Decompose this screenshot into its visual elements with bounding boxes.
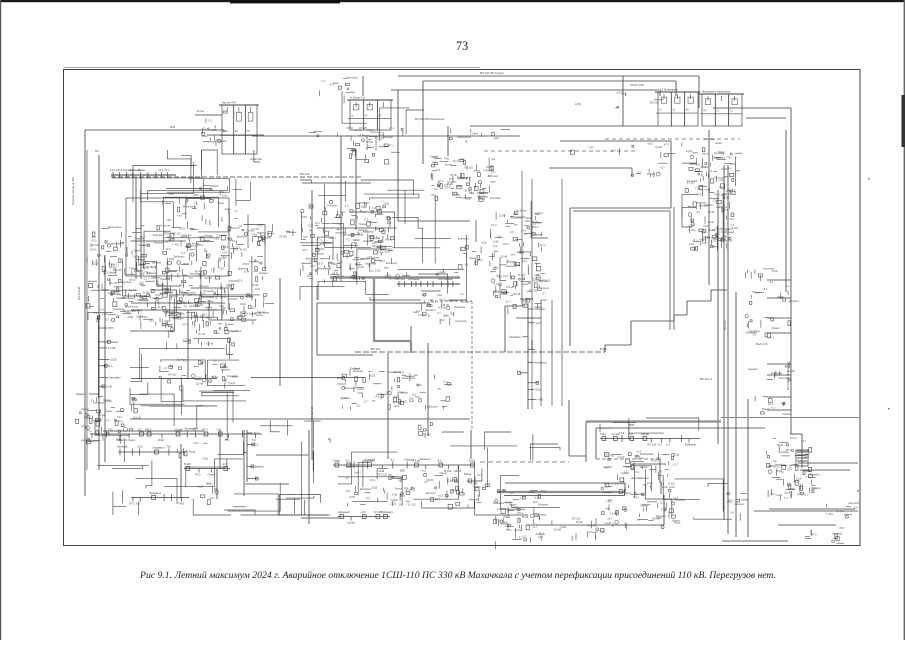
- svg-text:Каспийск: Каспийск: [509, 335, 521, 339]
- svg-text:РП-3: РП-3: [113, 264, 119, 268]
- svg-text:6,6: 6,6: [345, 476, 349, 480]
- taps east low: [755, 396, 792, 416]
- svg-text:ПС: ПС: [95, 149, 99, 153]
- svg-text:+j0,5: +j0,5: [142, 266, 148, 270]
- svg-text:АТ-1: АТ-1: [317, 238, 323, 242]
- svg-text:+4,8: +4,8: [340, 210, 346, 214]
- svg-text:Манас: Манас: [165, 290, 174, 294]
- svg-text:12,8: 12,8: [193, 427, 199, 431]
- svg-text:110 кВ: 110 кВ: [506, 285, 514, 289]
- scan edge top blob: [230, 0, 340, 3]
- wire tie 110kV: [111, 176, 363, 178]
- svg-text:2х25: 2х25: [421, 292, 427, 296]
- svg-text:Хасавюрт: Хасавюрт: [136, 314, 149, 318]
- wire: [595, 428, 597, 459]
- cluster bottom right: [766, 436, 821, 501]
- bus ladder 110kV: [110, 168, 176, 178]
- svg-text:ВЛ-330 кВ: ВЛ-330 кВ: [374, 136, 378, 150]
- wire: [569, 455, 586, 457]
- svg-text:Гуниб: Гуниб: [353, 367, 360, 371]
- svg-text:-8,3: -8,3: [628, 432, 633, 436]
- svg-text:Т-2: Т-2: [106, 418, 110, 422]
- wire: [605, 344, 631, 346]
- svg-text:АТ-2: АТ-2: [362, 257, 368, 261]
- svg-text:ТЭЦ: ТЭЦ: [360, 205, 365, 209]
- svg-text:АТ-1: АТ-1: [427, 304, 433, 308]
- svg-text:-8,3: -8,3: [225, 438, 230, 442]
- svg-text:-8,3: -8,3: [769, 280, 774, 284]
- svg-text:-15,2: -15,2: [659, 501, 665, 505]
- svg-text:Т-1: Т-1: [437, 311, 441, 315]
- svg-text:Т-401: Т-401: [483, 168, 490, 172]
- svg-text:Т-2: Т-2: [434, 187, 438, 191]
- svg-text:1СШ: 1СШ: [337, 260, 343, 264]
- svg-text:Леваши: Леваши: [259, 271, 269, 275]
- svg-text:ВЛ-110-4: ВЛ-110-4: [700, 377, 712, 381]
- svg-text:Леваши: Леваши: [76, 392, 86, 396]
- cluster Shamhal: [162, 303, 242, 350]
- wire box top edge: [317, 302, 430, 304]
- svg-text:2х25: 2х25: [133, 255, 139, 259]
- svg-text:Манас: Манас: [138, 168, 147, 172]
- feeder column center-right: [509, 306, 547, 409]
- svg-text:+j0,5: +j0,5: [393, 404, 399, 408]
- svg-text:ОРУ: ОРУ: [167, 218, 173, 222]
- svg-text:6,6: 6,6: [206, 482, 210, 486]
- svg-text:-5,1: -5,1: [658, 443, 663, 447]
- svg-text:2СШ: 2СШ: [222, 365, 228, 369]
- svg-text:2х25: 2х25: [190, 450, 196, 454]
- svg-text:2,4: 2,4: [188, 293, 192, 297]
- svg-text:1СШ: 1СШ: [93, 262, 99, 266]
- svg-text:АТ-2: АТ-2: [91, 239, 97, 243]
- small cluster: [418, 423, 432, 439]
- svg-text:РП-3: РП-3: [517, 511, 523, 515]
- svg-text:Изб-1: Изб-1: [625, 465, 632, 469]
- wire right bus: [708, 130, 710, 285]
- svg-text:Дербент: Дербент: [426, 308, 437, 312]
- svg-text:Леваши: Леваши: [635, 492, 645, 496]
- svg-text:10,4: 10,4: [222, 250, 228, 254]
- svg-text:13,1: 13,1: [235, 246, 241, 250]
- wire right bus: [727, 165, 729, 534]
- svg-text:Манас: Манас: [110, 340, 119, 344]
- svg-text:+4,8: +4,8: [84, 415, 90, 419]
- svg-text:ВЛ 330 кВ Чирюрт: ВЛ 330 кВ Чирюрт: [480, 71, 505, 75]
- wire: [216, 469, 218, 499]
- svg-text:РП-3: РП-3: [116, 168, 122, 172]
- svg-text:Гуниб: Гуниб: [129, 288, 136, 292]
- svg-text:2х25: 2х25: [390, 502, 396, 506]
- svg-text:Кизилюрт: Кизилюрт: [455, 319, 467, 323]
- svg-text:110 кВ: 110 кВ: [195, 303, 203, 307]
- svg-text:Т-2: Т-2: [346, 238, 350, 242]
- wire: [475, 220, 477, 242]
- components NW of Makhachkala: [319, 75, 358, 103]
- wire vertical left B: [98, 155, 100, 470]
- svg-text:ГЭС: ГЭС: [400, 468, 405, 472]
- svg-text:-21,7: -21,7: [143, 277, 149, 281]
- chain: [184, 462, 230, 477]
- svg-text:13,1: 13,1: [624, 469, 630, 473]
- bus heavy south: [586, 420, 721, 422]
- wire: [427, 343, 429, 436]
- drawing frame: [64, 70, 861, 546]
- svg-text:+4,8: +4,8: [374, 395, 380, 399]
- svg-text:2х25: 2х25: [198, 485, 204, 489]
- svg-text:ОРУ: ОРУ: [490, 180, 496, 184]
- svg-text:2,4: 2,4: [345, 204, 349, 208]
- svg-text:Т-2: Т-2: [532, 277, 536, 281]
- svg-text:3,2: 3,2: [753, 333, 757, 337]
- tap wire east vertical: [767, 409, 791, 411]
- svg-text:Леваши: Леваши: [134, 237, 144, 241]
- svg-text:В-110: В-110: [518, 273, 525, 277]
- svg-text:-8,3: -8,3: [216, 428, 221, 432]
- small cluster right: [826, 501, 860, 518]
- svg-text:-5,1: -5,1: [785, 284, 790, 288]
- wire: [180, 444, 182, 499]
- svg-text:Т-2: Т-2: [416, 309, 420, 313]
- svg-text:Ирганай: Ирганай: [538, 502, 549, 506]
- svg-text:Махачкала: Махачкала: [318, 267, 332, 271]
- svg-text:Ирганай: Ирганай: [527, 522, 538, 526]
- svg-text:Буйнакск: Буйнакск: [146, 271, 158, 275]
- svg-text:10,4: 10,4: [522, 259, 528, 263]
- svg-text:ПС-110: ПС-110: [572, 517, 581, 521]
- wire mesh bottom-center block: [338, 432, 560, 515]
- scan edge right: [904, 0, 905, 640]
- svg-text:Т-2: Т-2: [252, 438, 257, 442]
- svg-text:6,3 кВ: 6,3 кВ: [251, 227, 258, 231]
- svg-text:-8,3: -8,3: [437, 459, 442, 463]
- chain: [129, 491, 189, 506]
- wire: [687, 300, 711, 302]
- svg-text:13,6: 13,6: [377, 136, 383, 140]
- wire tie dashed: [355, 351, 605, 353]
- svg-text:2,4: 2,4: [494, 282, 498, 286]
- svg-text:Хасавюрт: Хасавюрт: [137, 298, 150, 302]
- wire: [560, 140, 671, 142]
- svg-text:Буйнакск: Буйнакск: [493, 501, 505, 505]
- svg-text:САОУ-330: САОУ-330: [630, 83, 644, 87]
- svg-text:6,6: 6,6: [283, 235, 287, 239]
- substation 330 NE bay 1: [655, 88, 700, 127]
- cluster bottom center-right: [493, 489, 549, 550]
- svg-text:Артем: Артем: [205, 276, 213, 280]
- svg-text:Хасавюрт: Хасавюрт: [749, 329, 762, 333]
- svg-text:Т-401: Т-401: [775, 493, 782, 497]
- svg-text:Гуниб: Гуниб: [357, 265, 364, 269]
- svg-text:2СШ: 2СШ: [708, 220, 714, 224]
- svg-text:2,4: 2,4: [666, 443, 670, 447]
- svg-text:ПС-110: ПС-110: [407, 502, 416, 506]
- taps east upper: [746, 267, 800, 305]
- svg-text:Леваши: Леваши: [536, 532, 546, 536]
- svg-text:-ВЛ-110: -ВЛ-110: [370, 347, 381, 351]
- svg-text:ГЭС: ГЭС: [211, 128, 216, 132]
- wire: [660, 483, 662, 494]
- svg-text:6,6: 6,6: [465, 262, 469, 266]
- svg-text:-5,1: -5,1: [470, 191, 475, 195]
- svg-text:+j0,5: +j0,5: [773, 464, 779, 468]
- svg-text:АТ-1: АТ-1: [107, 364, 113, 368]
- big left cluster: [86, 223, 274, 329]
- svg-text:В-110: В-110: [506, 500, 513, 504]
- svg-text:+j0,5: +j0,5: [647, 142, 653, 146]
- svg-text:110 кВ: 110 кВ: [183, 337, 191, 341]
- svg-text:+4,8: +4,8: [452, 192, 458, 196]
- wire: [711, 289, 727, 291]
- svg-text:ОРУ: ОРУ: [108, 326, 114, 330]
- svg-text:Артем: Артем: [640, 465, 648, 469]
- svg-text:+j0,5: +j0,5: [616, 90, 622, 94]
- svg-text:13,6: 13,6: [619, 431, 625, 435]
- svg-text:ПС-110: ПС-110: [378, 473, 387, 477]
- substation 330 NE bay 2: [699, 90, 744, 127]
- wire vertical left C: [104, 255, 106, 462]
- svg-text:ТЭЦ: ТЭЦ: [213, 237, 218, 241]
- wire VL-330: [423, 80, 676, 82]
- wire bus: [252, 135, 520, 137]
- svg-text:Буйнакск: Буйнакск: [458, 237, 470, 241]
- tap wire east vertical: [767, 396, 791, 398]
- svg-text:Ирганай: Ирганай: [117, 445, 128, 449]
- svg-text:ГЭС: ГЭС: [129, 267, 134, 271]
- bus heavy 330kV elbow: [374, 340, 411, 342]
- svg-text:-21,7: -21,7: [672, 463, 678, 467]
- svg-text:АТ-1: АТ-1: [195, 473, 201, 477]
- svg-text:-15,2: -15,2: [379, 259, 385, 263]
- svg-text:Буйнакск: Буйнакск: [382, 510, 394, 514]
- svg-text:Изб.: Изб.: [170, 125, 176, 129]
- wire dashed: [596, 458, 660, 460]
- svg-text:Дербент: Дербент: [458, 176, 469, 180]
- svg-text:АТ-1: АТ-1: [118, 420, 124, 424]
- wire 168: [549, 167, 632, 169]
- wire VL-330 north: [398, 75, 699, 77]
- svg-text:ПС-110: ПС-110: [464, 165, 473, 169]
- svg-text:Тарки: Тарки: [521, 282, 528, 286]
- svg-text:6,3 кВ: 6,3 кВ: [206, 341, 213, 345]
- wire: [447, 126, 449, 156]
- svg-text:В-110: В-110: [143, 291, 150, 295]
- wire: [470, 125, 658, 127]
- svg-text:10,4: 10,4: [510, 253, 516, 257]
- svg-text:ВЛ-330 кВ: ВЛ-330 кВ: [365, 136, 369, 150]
- svg-text:ТН: ТН: [247, 130, 250, 133]
- svg-text:+4,8: +4,8: [781, 402, 787, 406]
- svg-text:Каспийск: Каспийск: [848, 501, 860, 505]
- svg-text:Каспийск: Каспийск: [365, 261, 377, 265]
- svg-text:3,2: 3,2: [255, 443, 259, 447]
- chain below heavy bus: [600, 431, 700, 447]
- svg-text:-5,1: -5,1: [443, 379, 448, 383]
- wire: [131, 378, 217, 380]
- svg-text:Т-401: Т-401: [172, 242, 179, 246]
- svg-text:-21,7: -21,7: [105, 271, 111, 275]
- svg-text:6,6: 6,6: [189, 276, 193, 280]
- svg-text:Н.Хушет: Н.Хушет: [125, 438, 136, 442]
- svg-text:10,4: 10,4: [453, 159, 459, 163]
- wire: [746, 117, 786, 119]
- wire dashed bottom: [480, 461, 569, 463]
- svg-text:3,2: 3,2: [424, 480, 428, 484]
- svg-text:ТЭЦ: ТЭЦ: [718, 185, 723, 189]
- svg-text:2х25: 2х25: [493, 240, 499, 244]
- svg-text:6,6: 6,6: [807, 469, 811, 473]
- svg-text:2х25: 2х25: [465, 197, 471, 201]
- wire: [130, 418, 470, 420]
- wire: [722, 540, 788, 542]
- svg-text:ГЭС: ГЭС: [606, 499, 611, 503]
- svg-text:Буйнакск: Буйнакск: [150, 491, 162, 495]
- cluster between buses: [727, 493, 749, 521]
- svg-text:+j0,5: +j0,5: [536, 321, 542, 325]
- svg-text:2,4: 2,4: [386, 391, 390, 395]
- svg-text:АТ-2: АТ-2: [701, 165, 707, 169]
- svg-text:Каспийск: Каспийск: [704, 137, 716, 141]
- svg-text:+4,8: +4,8: [152, 296, 158, 300]
- svg-text:13,1: 13,1: [376, 248, 382, 252]
- svg-text:Н.Ю.: Н.Ю.: [575, 102, 582, 106]
- svg-text:-0,7: -0,7: [363, 400, 368, 404]
- svg-text:Рис 9.1. Летний максимум 2024: Рис 9.1. Летний максимум 2024 г. Аварийн…: [139, 570, 776, 581]
- cluster MKLU: [76, 396, 141, 443]
- svg-text:10,4: 10,4: [768, 402, 774, 406]
- svg-text:Тарки: Тарки: [691, 150, 698, 154]
- svg-text:2,4: 2,4: [211, 267, 215, 271]
- svg-text:+j0,5: +j0,5: [439, 297, 445, 301]
- sparse labels top: [615, 90, 663, 108]
- wire: [659, 90, 661, 96]
- svg-text:Сулак: Сулак: [324, 241, 332, 245]
- svg-text:АТ-2: АТ-2: [664, 142, 670, 146]
- svg-text:1СШ: 1СШ: [196, 376, 202, 380]
- svg-text:Сулак: Сулак: [170, 294, 178, 298]
- wire right bus: [717, 190, 719, 444]
- wire: [355, 150, 357, 230]
- svg-text:1СШ: 1СШ: [192, 314, 198, 318]
- wire: [308, 430, 310, 524]
- svg-text:10,4: 10,4: [634, 470, 640, 474]
- svg-text:2СШ: 2СШ: [212, 375, 218, 379]
- svg-text:-5,1: -5,1: [788, 490, 793, 494]
- svg-text:Артем: Артем: [197, 109, 205, 113]
- svg-text:13,1: 13,1: [158, 168, 164, 172]
- labels along bus 136: [449, 128, 510, 143]
- svg-text:ОРУ: ОРУ: [193, 193, 199, 197]
- svg-text:2СШ: 2СШ: [730, 162, 736, 166]
- svg-text:ПС-110: ПС-110: [542, 279, 551, 283]
- svg-text:Каспийск: Каспийск: [687, 179, 699, 183]
- tap wire east vertical: [767, 374, 791, 376]
- cluster Dzhalgan: [430, 155, 502, 202]
- wire bus: [131, 309, 225, 311]
- svg-text:-5,1: -5,1: [803, 492, 808, 496]
- svg-text:Махачкала Махачкала: Махачкала Махачкала: [702, 90, 731, 94]
- svg-text:6,3 кВ: 6,3 кВ: [374, 510, 382, 514]
- svg-text:АТ-2: АТ-2: [438, 179, 444, 183]
- svg-text:Гуниб: Гуниб: [231, 329, 238, 333]
- svg-text:13,1: 13,1: [730, 217, 736, 221]
- svg-text:12,8: 12,8: [793, 480, 799, 484]
- components left of station: [197, 109, 229, 146]
- svg-text:Т-1: Т-1: [422, 469, 427, 473]
- svg-text:ГЭС: ГЭС: [525, 219, 530, 223]
- wire: [769, 508, 855, 510]
- svg-text:Артем: Артем: [192, 242, 200, 246]
- svg-text:10,4: 10,4: [193, 441, 199, 445]
- svg-text:1СШ: 1СШ: [378, 469, 384, 473]
- svg-text:Т-1: Т-1: [771, 406, 775, 410]
- svg-text:Хасавюрт: Хасавюрт: [388, 370, 401, 374]
- svg-text:1СШ: 1СШ: [446, 479, 452, 483]
- wire: [686, 301, 688, 315]
- svg-text:ГЭС: ГЭС: [219, 267, 224, 271]
- svg-text:Каякент: Каякент: [420, 457, 431, 461]
- svg-text:АТ-1: АТ-1: [302, 248, 308, 252]
- svg-text:Гуниб: Гуниб: [228, 381, 235, 385]
- svg-text:Кизилюрт: Кизилюрт: [763, 267, 775, 271]
- wire mesh right bus block: [682, 157, 740, 251]
- svg-text:+j0,5: +j0,5: [179, 226, 185, 230]
- svg-text:ПС-110: ПС-110: [422, 432, 431, 436]
- svg-text:Манас: Манас: [204, 234, 213, 238]
- svg-text:35 кВ: 35 кВ: [447, 182, 454, 186]
- svg-text:Ирганай: Ирганай: [249, 259, 260, 263]
- svg-text:35 кВ: 35 кВ: [105, 384, 112, 388]
- svg-text:2х25: 2х25: [703, 224, 709, 228]
- svg-text:-21,7: -21,7: [213, 359, 219, 363]
- svg-text:Манас: Манас: [517, 250, 526, 254]
- cluster Salta: [631, 163, 667, 177]
- svg-text:6,6: 6,6: [497, 235, 501, 239]
- svg-text:Н.Хушет: Н.Хушет: [199, 284, 210, 288]
- svg-text:Т-1: Т-1: [88, 429, 92, 433]
- svg-text:-5,1: -5,1: [390, 458, 395, 462]
- svg-text:Буйнакск: Буйнакск: [477, 191, 489, 195]
- svg-text:13,6: 13,6: [110, 168, 116, 172]
- svg-text:Кизилюрт: Кизилюрт: [771, 371, 783, 375]
- svg-text:1СШ: 1СШ: [674, 453, 680, 457]
- svg-text:-5,1: -5,1: [487, 174, 492, 178]
- svg-text:АТ-2: АТ-2: [692, 238, 698, 242]
- svg-text:2СШ: 2СШ: [541, 489, 547, 493]
- svg-text:10,4: 10,4: [787, 468, 793, 472]
- svg-text:13,6: 13,6: [117, 415, 123, 419]
- svg-text:Махачкала: Махачкала: [457, 135, 471, 139]
- svg-text:Н.Хушет: Н.Хушет: [246, 312, 257, 316]
- wire: [569, 208, 571, 346]
- svg-text:3,2: 3,2: [497, 507, 501, 511]
- svg-text:2СШ: 2СШ: [240, 302, 246, 306]
- svg-text:Т-401: Т-401: [731, 226, 738, 230]
- svg-text:12,8: 12,8: [237, 278, 243, 282]
- svg-text:Гуниб: Гуниб: [134, 249, 141, 253]
- svg-text:Артем ОРУ: Артем ОРУ: [222, 101, 236, 105]
- svg-text:ВЛ-110: ВЛ-110: [168, 372, 177, 376]
- scan edge top: [0, 0, 905, 2]
- svg-text:Сулак: Сулак: [98, 413, 106, 417]
- wire: [251, 377, 365, 379]
- wire: [798, 462, 858, 464]
- svg-text:Манас: Манас: [464, 472, 473, 476]
- svg-text:Гуниб: Гуниб: [418, 313, 425, 317]
- svg-text:Дербент: Дербент: [139, 294, 150, 298]
- svg-text:АТ-1: АТ-1: [454, 469, 460, 473]
- speck: [857, 490, 859, 492]
